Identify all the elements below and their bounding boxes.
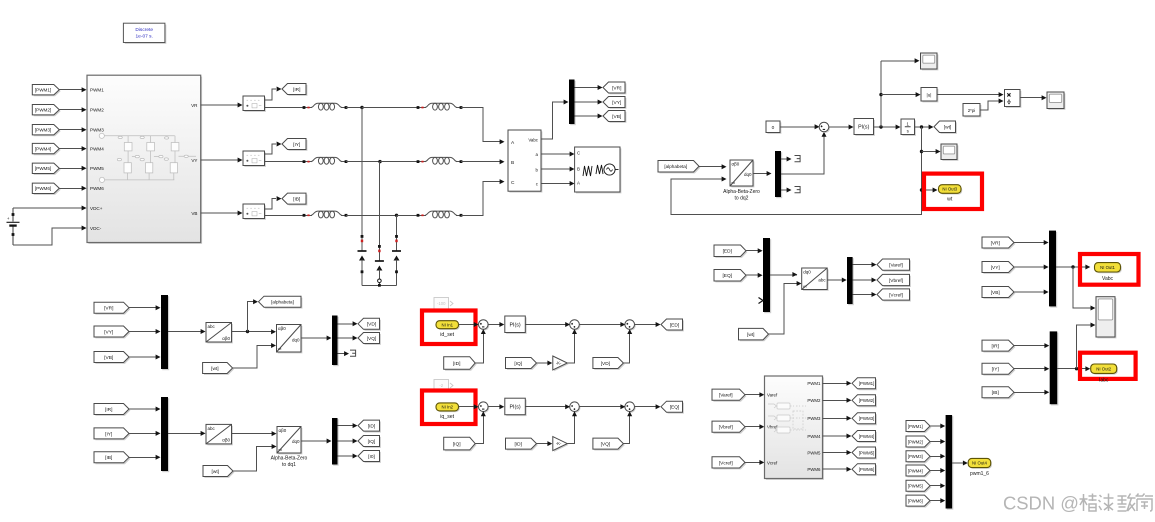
svg-text:[PWM6]: [PWM6]: [908, 499, 923, 504]
svg-text:[PWM4]: [PWM4]: [35, 147, 51, 152]
scope block 2: [941, 144, 958, 161]
wire to abs: [881, 94, 916, 96]
svg-text:pwm1_6: pwm1_6: [970, 471, 989, 477]
from tag [ID] NI In1 fb: [444, 357, 477, 371]
wire mux to dq0-abc: [770, 274, 797, 276]
goto tag [EQ]: [661, 401, 684, 413]
wire to VQ: [338, 337, 354, 339]
wire VDC- from source: [13, 228, 82, 245]
wire sum3 to [EQ]: [634, 406, 656, 408]
wire junction to inductor 3b: [397, 214, 419, 216]
wire to filter inductor 3a: [265, 214, 305, 216]
from tag [ED]: [714, 245, 747, 258]
red highlight box NI Out1: [1080, 254, 1139, 285]
wire [PWM3] to inverter: [59, 129, 82, 131]
svg-text:Discrete: Discrete: [135, 27, 153, 33]
filter inductor L3a: [303, 211, 348, 218]
NI Out1 yellow block: [1095, 263, 1122, 274]
goto tag [PWM1]: [852, 378, 877, 390]
svg-text:|u|: |u|: [927, 93, 932, 98]
red highlight box NI In2: [422, 391, 476, 425]
from tag [IB] mid: [94, 452, 130, 464]
from tag [EQ]: [714, 270, 747, 283]
wire sum2 to sum3 NI In2: [579, 406, 625, 408]
powergui Discrete block: [123, 23, 166, 44]
arrowhead NI Out3: [933, 188, 938, 193]
from tag [PWM5] out: [906, 480, 931, 492]
wire PWM1 out: [823, 382, 848, 384]
arrowhead mux PWM4 out: [940, 468, 945, 473]
goto tag [PWM2]: [852, 395, 877, 407]
svg-text:Iabc: Iabc: [1099, 377, 1109, 383]
svg-text:PWM6: PWM6: [90, 186, 104, 191]
label iq_set: [440, 414, 454, 420]
from tag [IB] out: [982, 387, 1015, 399]
wire [PWM6] to inverter: [59, 187, 82, 189]
arrowhead abc transform: [201, 329, 206, 334]
arrowhead [Vbref]: [872, 278, 877, 283]
mux currents to NI Out2: [1050, 331, 1059, 405]
filter inductor L3b: [417, 211, 463, 218]
wire demux q to PLL sum: [781, 136, 824, 174]
svg-text:[wt]: [wt]: [212, 469, 219, 475]
arrowhead mux [VR]: [156, 305, 161, 310]
svg-text:PWM1: PWM1: [90, 88, 104, 93]
wire demux zero: [781, 189, 787, 191]
wire PI to sum2 NI In2: [525, 406, 570, 408]
svg-text:[PWM3]: [PWM3]: [908, 454, 923, 459]
svg-text:[PWM5]: [PWM5]: [859, 450, 875, 455]
wire 2pi to divide: [980, 101, 999, 110]
ghost constant NI In1: [434, 298, 453, 310]
svg-text:[VY]: [VY]: [991, 265, 1000, 271]
wire [IR] to mux out: [1014, 345, 1045, 347]
svg-text:[VY]: [VY]: [612, 100, 621, 106]
arrowhead load c: [570, 181, 575, 186]
arrowhead mux PWM2 out: [940, 439, 945, 444]
svg-text:Vbref: Vbref: [767, 425, 778, 430]
PI controller PLL: [854, 119, 875, 136]
goto tag [IQ]: [358, 436, 381, 448]
svg-text:VR: VR: [191, 103, 198, 108]
arrowhead Vabc A: [500, 139, 505, 144]
arrowhead gain NI In2: [547, 441, 552, 446]
sum block 3 NI In1: [625, 320, 636, 331]
svg-text:-K-: -K-: [556, 441, 562, 446]
svg-text:Varef: Varef: [767, 393, 778, 398]
wire [VQ] to sum3 NI In2: [623, 416, 629, 444]
goto tag [VQ]: [358, 333, 381, 345]
NI Out2 yellow block: [1091, 364, 1118, 375]
arrowhead PWM5 port: [82, 166, 87, 171]
from tag [Vbref] gen: [712, 421, 746, 434]
arrowhead into VDC-: [82, 226, 87, 231]
wire [PWM5] to inverter: [59, 167, 82, 169]
svg-text:PWM5: PWM5: [90, 166, 104, 171]
svg-text:[PWM4]: [PWM4]: [859, 434, 875, 439]
from tag [VQ] NI In2 fb: [593, 438, 625, 450]
svg-text:VY: VY: [191, 158, 197, 163]
from tag [ID] NI In2 fb: [506, 438, 538, 450]
wire sum to PI PLL: [828, 126, 849, 128]
arrowhead mux [IB] out: [1044, 390, 1049, 395]
arrowhead goto PWM4: [847, 434, 852, 439]
wire mux to abc-ab0 I: [168, 432, 201, 434]
arrowhead mux PWM5 out: [940, 483, 945, 488]
CSDN watermark: [1003, 492, 1153, 513]
terminator V0: [350, 350, 356, 356]
svg-text:[IB]: [IB]: [293, 197, 300, 203]
arrowhead terminator 0: [787, 188, 792, 193]
label Alpha-Beta-Zero to dq1: [271, 456, 308, 469]
svg-text:VDC-: VDC-: [90, 226, 102, 231]
wire [PWM2] to mux out: [930, 441, 941, 443]
svg-text:PWM2: PWM2: [807, 398, 821, 403]
svg-text:αβ0: αβ0: [278, 326, 286, 331]
svg-text:dq0: dq0: [744, 172, 752, 177]
arrowhead PLL sum left: [815, 124, 820, 129]
arrowhead Vabc C: [500, 179, 505, 184]
from tag [alphabeta]: [658, 161, 700, 174]
wire I branch to scope: [1077, 325, 1091, 369]
arrowhead mux [IB]: [156, 455, 161, 460]
arrowhead [Varef]: [872, 262, 877, 267]
arrowhead sum1 bottom NI In2: [481, 411, 486, 416]
from tag [PWM6] input: [32, 183, 60, 195]
wire to filter inductor 1a: [265, 107, 305, 109]
arrowhead dq2 input: [722, 164, 727, 169]
wire ab0 to dq1: [232, 432, 273, 434]
arrowhead sum3 bottom NI In1: [627, 329, 632, 334]
wire [ID] to sum1: [475, 334, 483, 364]
svg-text:[VD]: [VD]: [601, 361, 610, 367]
label id_set: [440, 332, 454, 338]
wire const 0 to sum: [780, 126, 815, 128]
svg-text:C: C: [577, 151, 580, 156]
scope block 1: [921, 53, 939, 70]
label Iabc under NI Out2: [1099, 377, 1109, 383]
from tag [VB] out: [982, 287, 1015, 299]
arrowhead sum2 bottom NI In1: [572, 329, 577, 334]
arrowhead demux I2: [327, 439, 332, 444]
goto tag [wt]: [934, 121, 957, 134]
arrowhead PI PLL: [849, 125, 854, 130]
arrowhead demux V2: [327, 336, 332, 341]
wire to NI Out3: [922, 189, 934, 191]
abc to Alpha-Beta block I: [206, 424, 233, 445]
wire [Vbref] to PWM gen: [745, 426, 760, 428]
arrowhead mux [IY]: [156, 431, 161, 436]
svg-text:PWM3: PWM3: [90, 128, 104, 133]
svg-text:dq0: dq0: [292, 439, 300, 444]
PI controller NI In2: [505, 398, 527, 416]
from tag [PWM2] input: [32, 105, 60, 117]
wire [IB] to mux: [129, 456, 156, 458]
label Alpha-Beta-Zero to dq2: [723, 189, 760, 202]
Alpha-Beta to dq0 block V: [277, 325, 303, 354]
svg-text:wt: wt: [947, 197, 953, 203]
sum block 1 NI In1: [479, 320, 490, 331]
demux voltage VR VY VB: [569, 80, 576, 126]
svg-text:[Vbref]: [Vbref]: [889, 278, 903, 284]
from tag [wt] ref: [739, 328, 770, 341]
svg-text:[EQ]: [EQ]: [670, 405, 680, 411]
arrowhead sum1 bottom NI In1: [481, 329, 486, 334]
from tag [wt] I: [203, 466, 234, 478]
wire gain to sum2 NI In1: [567, 334, 574, 364]
wire [IB] to mux out: [1014, 391, 1045, 393]
wire junction to inductor 1b: [362, 107, 418, 109]
svg-text:[IY]: [IY]: [293, 142, 300, 148]
demux Vabc ref: [847, 257, 854, 305]
wire V branch to scope: [1073, 267, 1091, 308]
svg-text:[Vcref]: [Vcref]: [719, 460, 733, 466]
arrowhead sum2 bottom NI In2: [572, 411, 577, 416]
arrowhead divide input 2: [999, 99, 1004, 104]
arrowhead PWM gen [Varef]: [759, 392, 764, 397]
svg-text:-K-: -K-: [556, 361, 562, 366]
svg-text:[Varef]: [Varef]: [889, 263, 903, 269]
wire inductor to junction 1: [346, 107, 362, 109]
from tag [PWM1] out: [906, 421, 931, 433]
wire [VY] to mux: [129, 331, 156, 333]
svg-text:PWM6: PWM6: [807, 467, 821, 472]
NI In2 yellow block: [436, 403, 460, 412]
arrowhead sum2 NI In2: [565, 404, 570, 409]
wire [PWM3] to mux out: [930, 455, 941, 457]
svg-text:-100: -100: [437, 301, 446, 306]
arrowhead PWM1 port: [82, 87, 87, 92]
arrowhead into [VY]: [598, 100, 603, 105]
wire PI to integrator: [874, 126, 897, 128]
goto tag [I0]: [358, 451, 381, 463]
arrowhead dq0-abc wt: [797, 281, 802, 286]
wire [PWM6] to mux out: [930, 500, 941, 502]
svg-text:[PWM2]: [PWM2]: [859, 398, 875, 403]
dq0 to abc block: [802, 268, 829, 291]
wire VR to measurement: [201, 104, 239, 106]
wire [Varef] to PWM gen: [745, 394, 760, 396]
svg-text:[IR]: [IR]: [293, 87, 300, 93]
svg-text:αβ0: αβ0: [222, 336, 230, 341]
svg-text:[IQ]: [IQ]: [368, 439, 376, 445]
arrowhead sum1 NI In1: [474, 322, 479, 327]
arrowhead dq1 input: [272, 431, 277, 436]
sum block 1 NI In2: [479, 402, 490, 413]
wire [IR] to mux: [129, 408, 156, 410]
arrowhead mux [IR] out: [1044, 343, 1049, 348]
wire measurement 3 to tag: [265, 199, 277, 209]
arrowhead PWM2 port: [82, 107, 87, 112]
arrowhead PLL sum bottom: [822, 132, 827, 137]
wire to filter inductor 2a: [265, 161, 305, 163]
svg-text:dq0: dq0: [292, 338, 300, 343]
wire [VD] to sum3 NI In1: [623, 334, 629, 364]
mux voltages abc: [161, 295, 169, 370]
junction PI output: [879, 125, 882, 128]
mux currents abc: [161, 397, 169, 472]
svg-text:NI Out1: NI Out1: [1100, 265, 1115, 270]
arrowhead [ID]: [353, 423, 358, 428]
PLL sum block: [819, 122, 830, 133]
wire ED to mux: [746, 250, 758, 252]
filter inductor L2b: [417, 157, 463, 164]
mux PWM to NI Out4: [946, 415, 954, 510]
arrowhead scope I: [1091, 323, 1096, 328]
junction node phase 1: [360, 106, 363, 109]
constant 2*pi block: [963, 104, 981, 118]
svg-text:dq0: dq0: [803, 270, 811, 275]
svg-text:[Vbref]: [Vbref]: [719, 425, 733, 431]
svg-text:CSDN @: CSDN @: [1003, 492, 1079, 513]
svg-text:[IB]: [IB]: [105, 455, 112, 461]
from tag [Varef] gen: [712, 389, 746, 402]
junction scope I branch: [1075, 367, 1078, 370]
svg-text:[VD]: [VD]: [367, 322, 376, 328]
wire [VY] to mux out: [1014, 266, 1044, 268]
wire demux to [VR]: [575, 87, 599, 89]
svg-text:B: B: [511, 160, 514, 166]
wire alphabeta to transform: [699, 166, 722, 168]
svg-text:[VB]: [VB]: [104, 355, 113, 361]
arrowhead mux PWM3 out: [940, 454, 945, 459]
svg-text:[ID]: [ID]: [368, 424, 375, 430]
arrowhead gain NI In1: [547, 361, 552, 366]
wire to [ID]: [338, 425, 354, 427]
three-phase source load block: [575, 147, 622, 193]
arrowhead [ED]: [656, 322, 661, 327]
wire [VB] to mux out: [1014, 291, 1044, 293]
svg-text:+: +: [7, 216, 10, 221]
filter inductor L1a: [303, 103, 348, 110]
arrowhead scope2: [936, 149, 941, 154]
svg-text:Vcref: Vcref: [767, 460, 778, 465]
wire [PWM1] to inverter: [59, 89, 82, 91]
arrowhead mux [VY]: [156, 329, 161, 334]
svg-text:[PWM6]: [PWM6]: [859, 467, 875, 472]
svg-text:B: B: [577, 167, 580, 172]
current measurement block 2: [243, 151, 266, 167]
wire PWM2 out: [823, 399, 848, 401]
svg-text:[VB]: [VB]: [991, 290, 1000, 296]
PWM generator ghost icon: [768, 403, 806, 433]
unconnected mux input mark: [759, 298, 764, 304]
arrowhead mux [VB] out: [1044, 290, 1049, 295]
wire NI In1 to sum: [459, 324, 475, 326]
svg-text:2*pi: 2*pi: [968, 108, 976, 113]
constant 0 block: [766, 121, 781, 134]
arrowhead load b: [570, 167, 575, 172]
svg-text:[ID]: [ID]: [453, 361, 460, 367]
wire [PWM4] to inverter: [59, 148, 82, 150]
label wt under NI Out3: [947, 197, 953, 203]
wire [PWM1] to mux out: [930, 425, 941, 427]
arrowhead into [IB]: [277, 196, 282, 201]
goto tag [IY]: [282, 139, 307, 151]
svg-text:VB: VB: [191, 211, 197, 216]
arrowhead [Vcref]: [872, 292, 877, 297]
goto tag [ID]: [358, 420, 381, 432]
from tag [PWM4] input: [32, 143, 60, 155]
arrowhead into VDC+: [82, 206, 87, 211]
from tag [IQ] NI In1 fb: [506, 358, 538, 370]
wire [IQ] to gain: [537, 362, 549, 364]
mux ED EQ: [763, 238, 771, 313]
goto tag [Vcref]: [877, 289, 911, 302]
arrowhead dq0 V wt: [271, 343, 276, 348]
svg-text:NI In1: NI In1: [442, 322, 454, 327]
svg-text:[I0]: [I0]: [368, 454, 375, 460]
arrowhead mux [IR]: [156, 407, 161, 412]
red highlight box NI Out2: [1080, 353, 1136, 379]
wire [PWM2] to inverter: [59, 109, 82, 111]
arrowhead mux PWM6 out: [940, 498, 945, 503]
wire to [IQ]: [338, 440, 354, 442]
arrowhead mux [VY] out: [1044, 265, 1049, 270]
svg-text:NI Out4: NI Out4: [972, 461, 987, 466]
svg-text:[PWM1]: [PWM1]: [908, 424, 923, 429]
wire demux to [Vbref]: [853, 279, 872, 281]
from tag [IR] out: [982, 340, 1015, 352]
wire mux to NI Out4: [952, 462, 963, 464]
wire measurement 1 to tag: [265, 89, 277, 100]
svg-text:[IY]: [IY]: [105, 431, 112, 437]
label Vabc under NI Out1: [1102, 276, 1114, 282]
sum block 2 NI In1: [570, 320, 581, 331]
arrowhead Vabc B: [500, 159, 505, 164]
arrowhead scope3: [1042, 95, 1047, 100]
arrowhead NI Out4: [963, 461, 968, 466]
wire measurement 2 to tag: [265, 144, 277, 154]
arrowhead goto PWM3: [847, 416, 852, 421]
svg-text:Alpha-Beta-Zero: Alpha-Beta-Zero: [271, 456, 308, 462]
svg-text:PI(s): PI(s): [509, 404, 520, 410]
svg-text:[PWM4]: [PWM4]: [908, 468, 923, 473]
wire [VB] to mux: [129, 356, 156, 358]
arrowhead sum3 NI In1: [620, 322, 625, 327]
svg-text:[ID]: [ID]: [515, 442, 522, 448]
arrowhead goto PWM6: [847, 467, 852, 472]
wire [PWM5] to mux out: [930, 485, 941, 487]
abs block |u|: [921, 88, 938, 103]
arrowhead [IQ]: [353, 439, 358, 444]
from tag [PWM3] out: [906, 451, 931, 463]
arrowhead PWM gen [Vbref]: [759, 424, 764, 429]
arrowhead demux V input: [564, 100, 569, 105]
wire EQ to mux: [746, 274, 758, 276]
svg-text:[alphabeta]: [alphabeta]: [664, 164, 687, 169]
from tag [VR] mid: [94, 302, 130, 314]
arrowhead dq0-abc input: [792, 272, 797, 277]
junction wt: [920, 125, 923, 128]
from tag [IY] mid: [94, 428, 130, 440]
goto tag [VR] top: [603, 82, 626, 94]
svg-text:PWM5: PWM5: [807, 450, 821, 455]
svg-text:to dq1: to dq1: [282, 462, 296, 468]
svg-text:[VR]: [VR]: [612, 85, 621, 91]
wire to terminator V0: [338, 353, 345, 355]
wire Vabc c to load: [541, 183, 570, 185]
svg-text:[IB]: [IB]: [992, 390, 999, 396]
from tag [VY] out: [982, 262, 1015, 274]
from tag [VD] NI In1 fb: [593, 358, 625, 370]
wire demux d: [781, 158, 787, 160]
capacitor ground bus: [362, 284, 397, 287]
arrowhead PWM6 port: [82, 186, 87, 191]
svg-text:αβ0: αβ0: [222, 438, 230, 443]
wire PWM5 out: [823, 452, 848, 454]
from tag [VY] mid: [94, 326, 130, 338]
